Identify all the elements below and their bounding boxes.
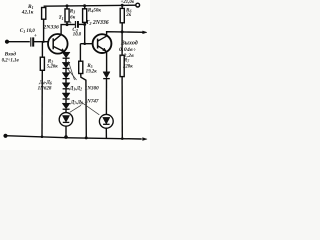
svg-text:5,26к: 5,26к: [47, 65, 58, 70]
wire T2 emitter: [105, 51, 108, 72]
wire input: [7, 41, 30, 43]
node C2 R4: [83, 23, 86, 26]
wire T1 emitter to chain: [64, 52, 66, 54]
node base T2: [83, 42, 86, 45]
wire output arrow: [143, 31, 147, 34]
svg-text:1N747: 1N747: [85, 99, 99, 105]
capacitor C1: [31, 37, 53, 46]
wire leader D1D2 b: [68, 69, 77, 80]
svg-text:Д7,Д8: Д7,Д8: [70, 99, 83, 105]
node collector C2: [66, 23, 69, 26]
diode zener D7 circled: [59, 109, 73, 138]
resistor R3: [65, 6, 69, 25]
svg-text:Выход: Выход: [120, 39, 138, 46]
diode D6: [62, 99, 70, 109]
diode D5: [62, 89, 70, 99]
svg-text:Д1,Д2: Д1,Д2: [69, 85, 82, 91]
wire T2 base: [80, 43, 93, 45]
svg-text:42,1к: 42,1к: [21, 10, 34, 16]
resistor R6: [120, 5, 124, 32]
svg-text:2к: 2к: [125, 13, 131, 18]
transistor T2: [93, 34, 112, 53]
node rail R4: [83, 4, 86, 7]
wire bottom arrow: [143, 138, 148, 141]
node rail R5: [85, 136, 88, 139]
wire leader D7: [70, 105, 81, 112]
diode zener D8 circled: [99, 114, 113, 138]
svg-text:220к: 220к: [122, 65, 133, 70]
resistor R2: [40, 42, 44, 137]
svg-text:1N300: 1N300: [85, 85, 99, 91]
node output junction: [121, 30, 124, 33]
svg-text:R450к: R450к: [88, 7, 102, 13]
resistor R5: [79, 44, 87, 138]
svg-text:+: +: [69, 20, 72, 26]
svg-text:2N336: 2N336: [42, 24, 59, 30]
node base T1 junction: [42, 41, 44, 43]
resistor R7: [120, 32, 124, 139]
diode D1: [62, 52, 70, 58]
resistor R1: [42, 8, 46, 42]
svg-text:+: +: [34, 33, 37, 39]
wire leader D1D2 a: [68, 61, 74, 80]
node rail R6: [121, 4, 124, 7]
node +21v terminal: [136, 3, 140, 7]
node rail zener: [64, 135, 68, 139]
svg-text:Вход: Вход: [4, 51, 17, 58]
svg-text:0,2÷1,1в: 0,2÷1,1в: [2, 59, 20, 64]
node input terminal: [6, 40, 9, 43]
resistor R4: [83, 6, 87, 44]
node rail R2: [41, 135, 44, 138]
wire T2 collector to output: [107, 32, 146, 36]
wire bottom rail: [5, 136, 141, 139]
node rail R3: [66, 4, 69, 7]
diode D2: [62, 58, 70, 68]
svg-text:0,04в÷: 0,04в÷: [119, 47, 136, 53]
svg-text:19,2к: 19,2к: [86, 70, 97, 75]
svg-text:Д4-Д6: Д4-Д6: [38, 79, 52, 85]
diode D4: [62, 79, 70, 89]
wire top rail: [44, 5, 136, 6]
svg-text:1N628: 1N628: [38, 86, 52, 92]
node ground terminal: [4, 134, 7, 137]
svg-text:10,0: 10,0: [73, 33, 82, 38]
transistor T1: [48, 34, 68, 54]
diode D3: [62, 68, 70, 78]
node rail R7: [121, 137, 124, 140]
svg-text:+21,0в: +21,0в: [121, 0, 135, 5]
diode D emitter: [103, 72, 110, 115]
wire T1 collector: [61, 25, 67, 35]
capacitor C2: [67, 21, 85, 28]
svg-text:T2 2N336: T2 2N336: [86, 20, 109, 26]
wire leader D8: [80, 102, 99, 115]
